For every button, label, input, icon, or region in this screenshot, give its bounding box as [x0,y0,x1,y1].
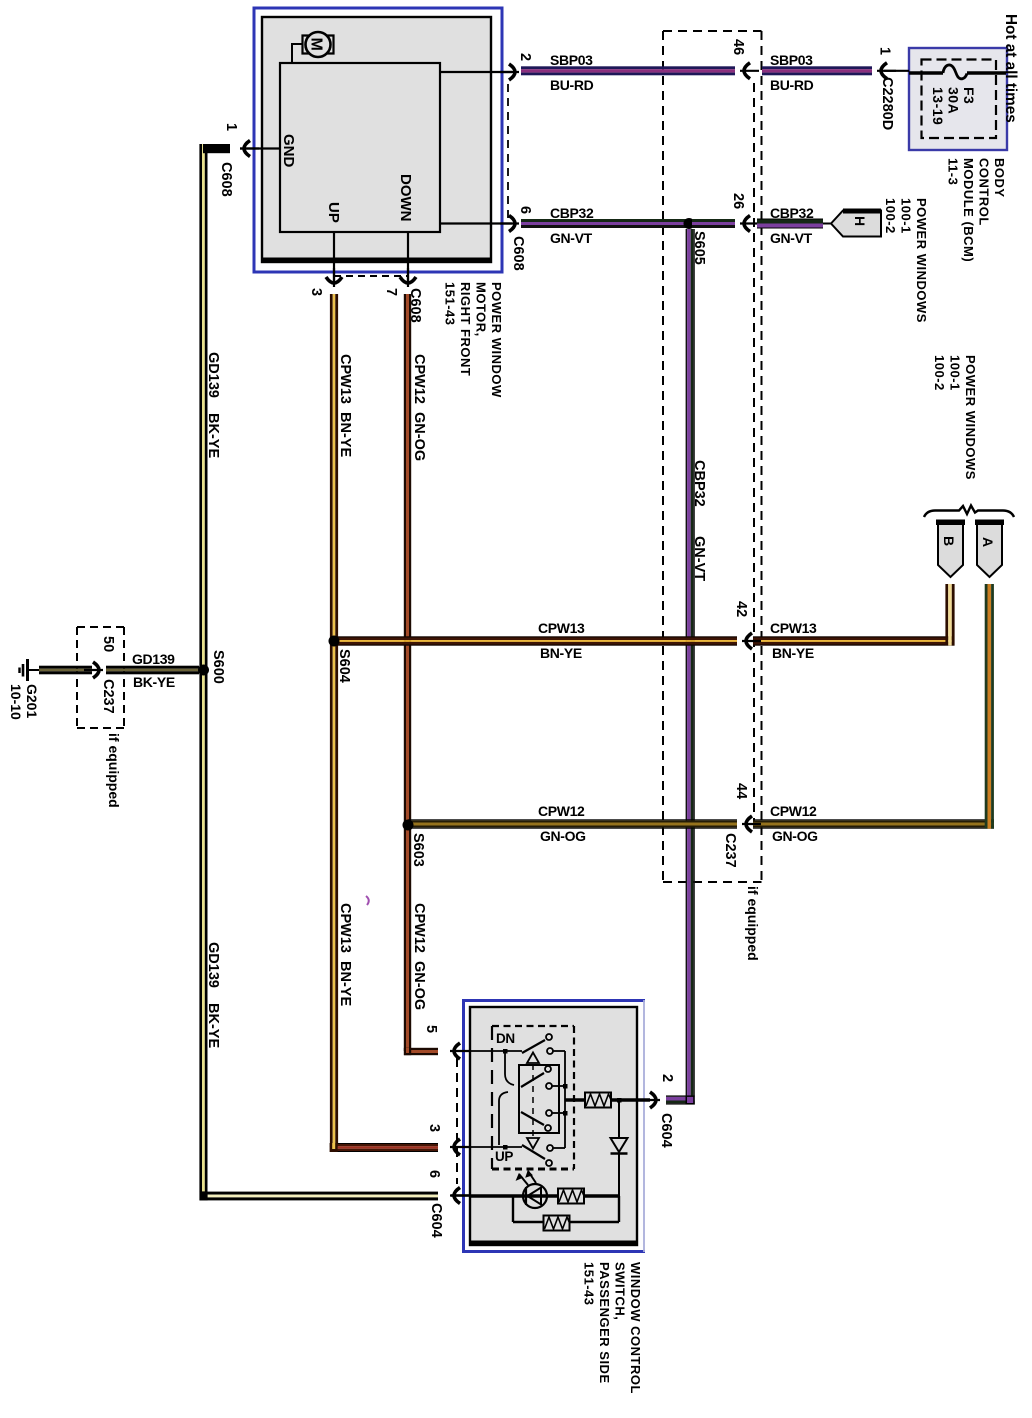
svg-text:UP: UP [495,1149,513,1164]
svg-text:CBP32: CBP32 [691,460,707,507]
svg-text:CBP32: CBP32 [550,205,594,221]
svg-text:151-43: 151-43 [582,1262,597,1305]
svg-text:BODY: BODY [992,158,1007,198]
svg-text:POWER WINDOWS: POWER WINDOWS [914,198,929,323]
svg-text:11-3: 11-3 [946,158,961,185]
svg-text:F3: F3 [961,87,977,104]
svg-text:CPW13: CPW13 [770,620,817,636]
svg-text:C2280D: C2280D [879,77,895,130]
svg-text:C604: C604 [428,1203,444,1238]
svg-text:SWITCH,: SWITCH, [613,1262,628,1320]
svg-text:A: A [980,537,996,547]
svg-text:GD139: GD139 [205,352,221,398]
svg-text:S600: S600 [210,650,226,684]
svg-text:GN-OG: GN-OG [411,961,427,1010]
svg-text:CPW13: CPW13 [337,903,353,953]
svg-text:44: 44 [733,783,749,799]
svg-text:5: 5 [423,1025,439,1033]
svg-text:WINDOW CONTROL: WINDOW CONTROL [628,1262,643,1394]
svg-text:MOTOR,: MOTOR, [474,282,489,337]
svg-text:1: 1 [223,123,239,131]
svg-text:DOWN: DOWN [397,174,414,222]
svg-text:CBP32: CBP32 [770,205,814,221]
svg-text:B: B [941,536,957,546]
svg-text:2: 2 [659,1074,675,1082]
svg-text:6: 6 [517,206,533,214]
svg-text:10-10: 10-10 [8,684,24,720]
svg-text:CPW12: CPW12 [411,903,427,953]
svg-text:GN-OG: GN-OG [411,412,427,461]
svg-text:GN-VT: GN-VT [770,230,813,246]
svg-text:CPW13: CPW13 [337,354,353,404]
svg-text:6: 6 [426,1170,442,1178]
svg-text:2: 2 [517,53,533,61]
svg-text:GN-VT: GN-VT [550,230,593,246]
svg-text:GD139: GD139 [132,651,175,667]
svg-text:C237: C237 [722,833,738,868]
svg-text:GD139: GD139 [205,942,221,988]
svg-text:3: 3 [308,288,324,296]
svg-text:C608: C608 [407,288,423,323]
svg-text:BU-RD: BU-RD [770,77,814,93]
svg-text:BK-YE: BK-YE [133,674,175,690]
svg-text:CONTROL: CONTROL [977,158,992,226]
svg-text:3: 3 [426,1124,442,1132]
svg-text:G201: G201 [24,684,40,718]
svg-text:7: 7 [383,288,399,296]
svg-text:GN-OG: GN-OG [772,828,818,844]
svg-text:S605: S605 [691,231,707,265]
svg-text:100-1: 100-1 [948,355,963,391]
svg-text:151-43: 151-43 [443,282,458,325]
svg-text:42: 42 [733,601,749,617]
svg-text:GND: GND [280,134,297,168]
svg-text:SBP03: SBP03 [770,52,813,68]
svg-text:DN: DN [496,1031,515,1046]
svg-text:S603: S603 [410,833,426,867]
svg-text:50: 50 [100,636,116,652]
svg-text:C608: C608 [218,162,234,197]
svg-text:BN-YE: BN-YE [337,961,353,1006]
svg-text:MODULE (BCM): MODULE (BCM) [961,158,976,262]
svg-text:C608: C608 [510,236,526,271]
svg-text:BN-YE: BN-YE [540,645,582,661]
svg-text:26: 26 [730,193,746,209]
svg-text:C237: C237 [100,679,116,714]
svg-text:100-2: 100-2 [883,198,898,234]
svg-text:if equipped: if equipped [745,886,761,961]
svg-text:RIGHT FRONT: RIGHT FRONT [458,282,473,376]
svg-text:GN-VT: GN-VT [691,536,707,581]
svg-text:PASSENGER SIDE: PASSENGER SIDE [597,1262,612,1384]
svg-text:BK-YE: BK-YE [205,413,221,458]
svg-text:BN-YE: BN-YE [337,412,353,457]
svg-text:30A: 30A [946,87,962,114]
svg-text:Hot at all times: Hot at all times [1002,14,1019,123]
svg-text:POWER WINDOW: POWER WINDOW [489,282,504,398]
svg-text:BU-RD: BU-RD [550,77,594,93]
svg-text:H: H [852,216,868,226]
svg-text:BK-YE: BK-YE [205,1003,221,1048]
svg-text:POWER WINDOWS: POWER WINDOWS [963,355,978,480]
svg-text:100-2: 100-2 [932,355,947,391]
svg-text:if equipped: if equipped [106,733,122,808]
svg-text:C604: C604 [658,1113,674,1148]
svg-text:M: M [308,38,325,51]
svg-text:46: 46 [730,39,746,55]
svg-text:1: 1 [877,47,893,55]
svg-text:GN-OG: GN-OG [540,828,586,844]
svg-text:13-19: 13-19 [930,87,946,125]
svg-text:CPW13: CPW13 [538,620,585,636]
svg-text:SBP03: SBP03 [550,52,593,68]
svg-text:CPW12: CPW12 [770,803,817,819]
svg-text:BN-YE: BN-YE [772,645,814,661]
svg-text:S604: S604 [336,649,352,683]
svg-text:CPW12: CPW12 [538,803,585,819]
svg-text:100-1: 100-1 [899,198,914,234]
svg-text:UP: UP [325,202,342,223]
svg-text:CPW12: CPW12 [411,354,427,404]
